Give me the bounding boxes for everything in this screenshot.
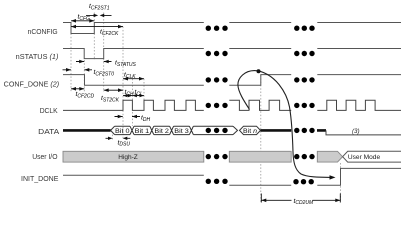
dashed extension line at DCLK second rising edge x=142.2 [143,79,145,101]
User Mode box [343,151,401,162]
t_CF2ST1 measurement arrows [86,14,112,16]
Bit n box [240,126,261,134]
t_CD2UM measurement arrow with end bars [261,194,340,203]
t_CH measurement arrow [123,95,132,97]
dashed extension line at nSTATUS/CONF_DONE fall x=84.3 [83,60,85,92]
t_CFG measurement arrow [71,20,94,22]
dashed extension line at nSTATUS rise x=103.7 [103,13,105,93]
annotation curve anchor dot on CONF_DONE rise [257,69,261,73]
svg-text:Bit 3: Bit 3 [174,129,189,135]
t_STATUS measurement arrows [76,61,112,63]
svg-text:nCONFIG: nCONFIG [28,29,58,36]
CONF_DONE waveform [63,75,401,86]
continuation dots nCONFIG left [206,26,228,31]
svg-text:User I/O: User I/O [32,154,58,161]
DCLK waveform left burst [63,100,204,110]
t_DH measurement arrows [115,116,141,118]
continuation dots nSTATUS left [206,51,228,56]
DATA bit box top/bottom edges [115,126,233,134]
t_ST2CK measurement arrow [104,89,123,91]
t_DSU measurement arrow [106,137,131,139]
svg-text:User Mode: User Mode [348,154,381,161]
DATA step down and tail with note (3) [326,130,401,135]
svg-text:Bit 1: Bit 1 [135,129,150,135]
svg-text:High-Z: High-Z [118,154,138,161]
DATA idle thick line before Bit 0 [63,129,111,132]
dashed extension line at INIT_DONE rise x=340.5 [340,163,342,202]
t_CL measurement arrow [132,95,144,97]
svg-text:INIT_DONE: INIT_DONE [21,176,59,183]
dashed extension line at nCONFIG fall x=71 [70,34,72,93]
continuation dots nSTATUS right [294,51,315,56]
continuation dots User I/O left [206,154,228,159]
DCLK waveform right burst [317,100,401,110]
User I/O High-Z band segment 1 [63,151,204,162]
dashed extension line at DCLK first falling edge x=132.6 [131,79,133,126]
nCONFIG waveform [63,23,401,34]
DATA thick line after Bit n [261,129,327,132]
svg-text:DATA: DATA [38,129,59,136]
annotation curve arrowhead [330,175,336,179]
continuation dots User I/O right [294,154,315,159]
DCLK waveform middle burst [229,100,291,110]
svg-text:CONF_DONE (2): CONF_DONE (2) [4,81,59,88]
DATA bit box crossovers [111,126,194,134]
svg-text:nSTATUS (1): nSTATUS (1) [16,54,59,61]
User I/O High-Z band segment 2 [229,151,291,162]
svg-text:Bit 0: Bit 0 [115,129,130,135]
t_CLK measurement arrow [123,78,144,80]
continuation dots DCLK left [206,103,228,108]
continuation dots nCONFIG right [294,26,315,31]
User I/O High-Z band segment 3 with closing taper [317,151,342,162]
continuation dots DCLK right [294,103,315,108]
t_CF2CD measurement arrow [71,88,84,90]
DATA open region closing chevron [233,126,238,134]
continuation dots INIT_DONE left [206,179,228,184]
t_CF2CK measurement arrow [71,26,123,28]
nSTATUS waveform [63,49,401,59]
svg-text:Bit n: Bit n [243,129,258,135]
continuation dots INIT_DONE right [293,179,314,184]
dashed extension line at DCLK first rising edge x=123 [122,27,124,140]
svg-text:Bit 2: Bit 2 [154,129,169,135]
dashed extension line at nCONFIG rise x=94.3 [93,13,95,61]
svg-text:DCLK: DCLK [40,108,58,115]
dashed extension line at CONF_DONE rise / Bit n end x=260.8 [260,75,262,202]
continuation dots CONF_DONE left [206,77,228,82]
continuation dots DATA right [294,128,315,133]
continuation dots DATA left [206,128,228,133]
INIT_DONE waveform [63,168,401,185]
continuation dots CONF_DONE right [294,77,315,82]
dashed extension line at Bit 0 start x=112.5 [112,135,114,140]
svg-text:(3): (3) [352,128,360,135]
t_CF2ST0 measurement arrows [63,69,93,71]
annotation curve from CONF_DONE rise to INIT_DONE rise [238,71,331,178]
